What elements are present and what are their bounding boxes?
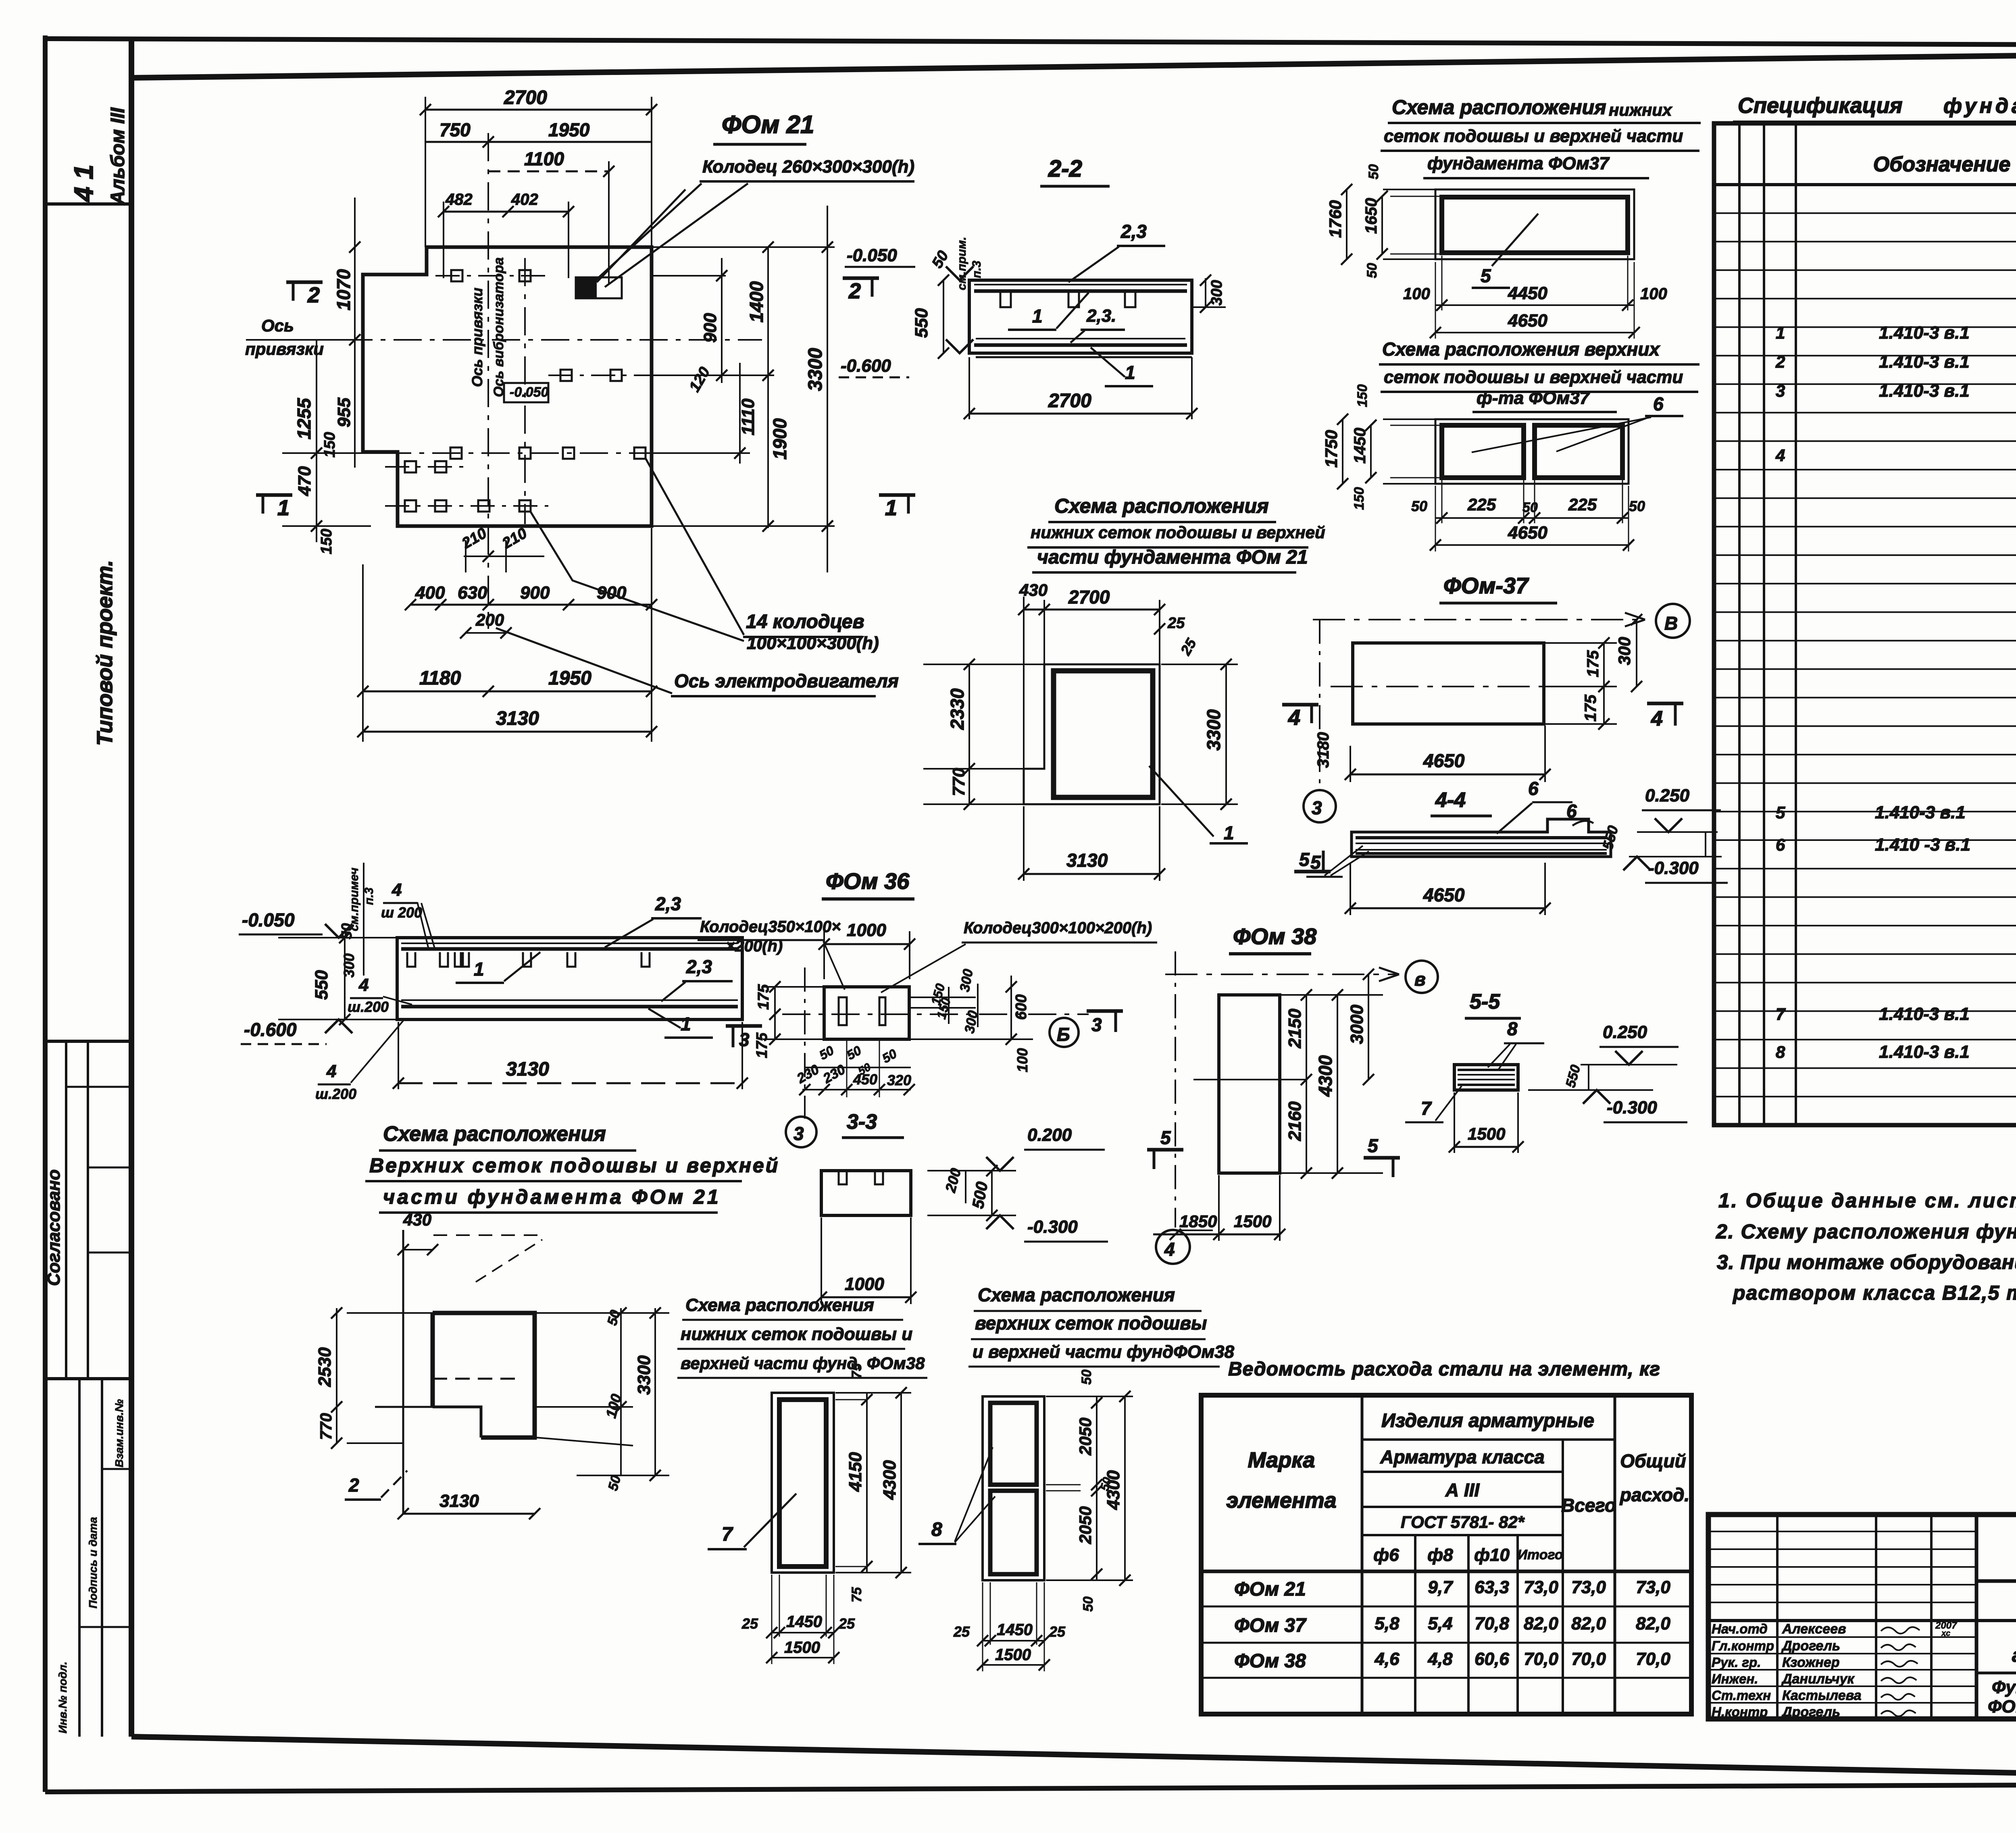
svg-text:25: 25: [1167, 615, 1185, 632]
svg-text:2330: 2330: [947, 688, 968, 730]
svg-text:ф10: ф10: [1474, 1545, 1510, 1565]
svg-text:4-4: 4-4: [1435, 789, 1466, 812]
section mark 5 lower: [1294, 870, 1331, 874]
svg-text:175: 175: [754, 1032, 771, 1058]
dims right FOm36: [911, 997, 976, 998]
section mark 1 left: [256, 493, 292, 497]
svg-text:Ось привязки: Ось привязки: [469, 288, 485, 387]
bottom dim 3130: [363, 731, 652, 733]
left dim chain: [354, 198, 356, 468]
dim 3130 bottom scheme: [403, 1513, 535, 1515]
svg-text:4: 4: [1164, 1239, 1175, 1260]
svg-text:1900: 1900: [769, 418, 790, 460]
svg-text:1070: 1070: [333, 269, 354, 310]
svg-text:5: 5: [1299, 849, 1310, 870]
svg-text:3: 3: [1312, 797, 1322, 818]
circle mark V: [1656, 604, 1690, 638]
svg-text:ФОм 36,ФОм 37, ФОм 38: ФОм 36,ФОм 37, ФОм 38: [1988, 1697, 2016, 1716]
FOm38 center line: [1193, 1079, 1306, 1080]
svg-text:3300: 3300: [634, 1355, 654, 1395]
svg-text:6: 6: [1528, 778, 1539, 799]
svg-text:5,8: 5,8: [1375, 1614, 1400, 1633]
svg-text:Кастылева: Кастылева: [1782, 1688, 1862, 1703]
svg-text:63,3: 63,3: [1475, 1577, 1509, 1597]
element 7 outer: [772, 1393, 834, 1573]
scheme2 bottom dims: [1435, 517, 1629, 519]
svg-text:1: 1: [1125, 362, 1135, 383]
svg-text:5: 5: [1160, 1127, 1171, 1148]
dim 3300 100 50 50: [620, 1308, 622, 1475]
svg-text:Колодец350×100×: Колодец350×100×: [700, 918, 841, 936]
top band notches: [1000, 291, 1011, 307]
svg-text:Итого: Итого: [1517, 1547, 1563, 1563]
svg-text:-0.600: -0.600: [244, 1019, 297, 1040]
element 7 dims bottom: [772, 1632, 834, 1633]
svg-text:1100: 1100: [524, 148, 564, 169]
svg-text:Дрогель: Дрогель: [1781, 1638, 1840, 1654]
svg-text:4: 4: [1288, 705, 1300, 730]
dim 2700 top: [425, 109, 652, 111]
kolodets filled square: [576, 277, 597, 298]
section mark 5 top: [1364, 1156, 1400, 1160]
svg-text:75: 75: [849, 1363, 864, 1379]
svg-text:Обозначение: Обозначение: [1873, 153, 2011, 176]
svg-text:100×100×300(h): 100×100×300(h): [747, 633, 879, 653]
svg-text:2: 2: [348, 1475, 359, 1496]
element 8 mesh bottom: [990, 1491, 1037, 1574]
svg-text:70,0: 70,0: [1524, 1649, 1558, 1669]
svg-text:1.410-3 в.1: 1.410-3 в.1: [1879, 1042, 1970, 1062]
mesh 6a bold rect: [1442, 425, 1524, 478]
FOm38 axis horizontal: [1165, 974, 1399, 975]
dim 430 2700 scheme: [1024, 609, 1160, 611]
svg-text:6: 6: [1776, 835, 1785, 854]
drawing frame top: [131, 50, 2016, 78]
FOm38 axis vertical: [1175, 951, 1176, 1228]
svg-text:1. Общие данные см. лист 1.: 1. Общие данные см. лист 1.: [1718, 1189, 2016, 1212]
bottom dim 210 210: [464, 556, 544, 557]
mesh lines 4-4 top: [1356, 836, 1607, 839]
upper mesh dashed top: [433, 1234, 540, 1236]
dim 1000 33: [821, 1296, 911, 1298]
svg-text:150: 150: [318, 529, 335, 554]
svg-text:14 колодцев: 14 колодцев: [746, 611, 864, 632]
svg-text:элемента: элемента: [1226, 1488, 1336, 1513]
svg-text:73,0: 73,0: [1571, 1577, 1606, 1597]
svg-text:1500: 1500: [784, 1639, 820, 1656]
svg-text:автомобильных шин.: автомобильных шин.: [2012, 1645, 2016, 1666]
svg-text:Б: Б: [1057, 1024, 1070, 1045]
steel table frame: [1201, 1395, 1691, 1714]
dim 1100: [488, 171, 609, 173]
bottom mesh band: [976, 338, 1185, 339]
svg-text:Изделия арматурные: Изделия арматурные: [1381, 1410, 1594, 1431]
svg-text:5: 5: [1310, 852, 1321, 873]
svg-text:5: 5: [1776, 803, 1785, 822]
svg-text:-0.300: -0.300: [1648, 858, 1699, 878]
svg-text:400: 400: [415, 583, 445, 603]
element 8 dims right: [1046, 1396, 1133, 1397]
svg-text:1000: 1000: [847, 920, 886, 940]
svg-text:ф8: ф8: [1427, 1545, 1453, 1565]
svg-text:175: 175: [1582, 695, 1599, 722]
svg-text:1: 1: [681, 1013, 691, 1034]
svg-text:50: 50: [1629, 498, 1645, 514]
section mark 1 right: [879, 493, 915, 497]
page border outer left: [43, 35, 48, 1792]
svg-text:73,0: 73,0: [1636, 1577, 1670, 1597]
svg-text:4,6: 4,6: [1374, 1649, 1400, 1669]
svg-text:1110: 1110: [738, 398, 758, 435]
svg-text:1180: 1180: [419, 668, 461, 689]
svg-text:1500: 1500: [1468, 1124, 1505, 1143]
svg-text:нижних сеток подошвы и: нижних сеток подошвы и: [681, 1324, 912, 1344]
axis line FOm37: [1313, 619, 1645, 620]
svg-text:Общий: Общий: [1620, 1450, 1686, 1471]
svg-text:Инжен.: Инжен.: [1712, 1671, 1758, 1686]
leader diagonal to kolodets label: [597, 189, 685, 282]
dim 1500 55: [1454, 1146, 1518, 1148]
svg-text:Ведомость расхода стали на эле: Ведомость расхода стали на элемент, кг: [1228, 1359, 1660, 1380]
axis short y1255: [385, 505, 548, 507]
mesh lines 4-4 bottom: [1356, 849, 1607, 851]
svg-text:-0.050: -0.050: [510, 385, 548, 400]
svg-text:25: 25: [838, 1615, 855, 1632]
svg-text:части фундамента ФОм 21: части фундамента ФОм 21: [383, 1186, 721, 1208]
svg-text:1: 1: [1032, 306, 1043, 327]
svg-text:482: 482: [445, 191, 473, 208]
svg-text:3300: 3300: [1203, 709, 1224, 751]
axis short y1158: [385, 466, 464, 468]
svg-text:3130: 3130: [439, 1491, 479, 1511]
element 7 dims right: [835, 1392, 911, 1394]
dim 300 right sec2: [1205, 278, 1206, 307]
dim 200 33: [965, 1171, 966, 1203]
svg-text:0.200: 0.200: [1027, 1125, 1072, 1145]
dim 2700 sec2: [969, 413, 1192, 415]
svg-text:2: 2: [1775, 352, 1785, 371]
mesh 6b bold rect: [1535, 425, 1622, 478]
dim 430 bottom scheme: [403, 1249, 433, 1250]
upper mesh bold outline: [433, 1313, 535, 1438]
svg-text:Схема расположения: Схема расположения: [383, 1122, 606, 1146]
FOm37 axis horizontal: [1331, 686, 1581, 687]
svg-text:Нач.отд: Нач.отд: [1712, 1621, 1768, 1636]
steel table verticals: [1361, 1395, 1364, 1714]
svg-text:ш.200: ш.200: [315, 1086, 356, 1102]
svg-text:225: 225: [1467, 495, 1496, 514]
stamp side table: [78, 1379, 81, 1737]
spec row lines: [1714, 212, 2016, 214]
page border outer top: [45, 39, 2016, 46]
FOm36 plan rect: [824, 987, 909, 1039]
long section dim 3130: [398, 1082, 742, 1084]
svg-text:150: 150: [1352, 487, 1367, 510]
svg-text:1: 1: [474, 959, 484, 980]
dim 750 1950: [425, 141, 652, 143]
svg-text:3180: 3180: [1314, 732, 1332, 768]
svg-text:1255: 1255: [294, 397, 314, 439]
leaders to wells: [645, 458, 744, 635]
top mesh band: [974, 284, 1187, 285]
svg-text:73,0: 73,0: [1524, 1577, 1558, 1597]
svg-text:Н.контр: Н.контр: [1712, 1704, 1768, 1719]
section 2-2 body: [969, 280, 1192, 353]
svg-text:5,4: 5,4: [1428, 1614, 1452, 1633]
svg-text:ГОСТ 5781- 82*: ГОСТ 5781- 82*: [1401, 1513, 1525, 1531]
svg-text:25: 25: [1049, 1623, 1066, 1640]
svg-text:630: 630: [458, 583, 487, 603]
svg-text:402: 402: [511, 191, 538, 208]
dim 1000 FOm36: [824, 943, 910, 945]
svg-text:1.410-3 в.1: 1.410-3 в.1: [1875, 803, 1966, 822]
svg-text:сеток подошвы и верхней части: сеток подошвы и верхней части: [1384, 367, 1683, 387]
svg-text:Кзожнер: Кзожнер: [1782, 1655, 1840, 1670]
leader 5 scheme1: [1492, 214, 1538, 266]
svg-text:2050: 2050: [1076, 1418, 1095, 1456]
dims 175 175 right: [1545, 642, 1617, 644]
svg-text:ф-та ФОм37: ф-та ФОм37: [1477, 388, 1591, 408]
svg-text:50: 50: [1411, 498, 1427, 514]
svg-text:8: 8: [1507, 1018, 1518, 1039]
svg-text:Всего: Всего: [1561, 1495, 1616, 1516]
svg-text:4: 4: [392, 880, 402, 900]
svg-text:2700: 2700: [504, 87, 547, 108]
dim 2530 770: [336, 1308, 337, 1443]
svg-text:3000: 3000: [1347, 1005, 1367, 1044]
svg-text:1400: 1400: [746, 281, 767, 322]
drawing frame left: [129, 39, 134, 1737]
svg-text:1.410-3 в.1: 1.410-3 в.1: [1879, 381, 1970, 401]
svg-text:3130: 3130: [1066, 850, 1108, 871]
axis vertical main: [487, 133, 489, 629]
drawing frame bottom: [131, 1737, 2016, 1782]
scheme1 left dims: [1383, 189, 1435, 190]
svg-text:3-3: 3-3: [847, 1110, 877, 1134]
svg-text:Ось: Ось: [261, 316, 294, 335]
svg-text:ФОм-37: ФОм-37: [1443, 573, 1529, 598]
svg-text:верхних сеток подошвы: верхних сеток подошвы: [975, 1313, 1207, 1334]
svg-text:600: 600: [1013, 995, 1030, 1020]
title block signature columns: [1776, 1515, 1779, 1719]
svg-text:2050: 2050: [1076, 1506, 1095, 1544]
dims 2150 2160 4300 3000: [1281, 994, 1383, 996]
svg-text:50: 50: [1079, 1369, 1094, 1385]
spec table verticals: [1738, 123, 1741, 1125]
svg-text:1750: 1750: [1322, 430, 1341, 468]
svg-text:расход.: расход.: [1619, 1484, 1689, 1505]
svg-text:части фундамента ФОм 21: части фундамента ФОм 21: [1037, 547, 1308, 568]
svg-text:1.410-3 в.1: 1.410-3 в.1: [1879, 1004, 1970, 1024]
dim 500 33: [991, 1171, 993, 1215]
svg-text:-0.050: -0.050: [847, 246, 897, 265]
svg-text:200: 200: [475, 610, 504, 629]
dim 3130 scheme: [1024, 873, 1160, 875]
dim 482 402: [444, 211, 569, 213]
svg-text:Алексеев: Алексеев: [1782, 1621, 1846, 1637]
svg-text:4 1: 4 1: [69, 164, 98, 202]
svg-text:300: 300: [1208, 280, 1225, 306]
svg-text:фундаментов ФОм 21, ФОм 36 ÷: фундаментов ФОм 21, ФОм 36 ÷ ФОм 38.: [1943, 94, 2016, 118]
svg-text:ФОм 21: ФОм 21: [722, 111, 814, 139]
FOm36 axis vertical: [804, 967, 806, 1119]
svg-text:5: 5: [1481, 265, 1491, 286]
svg-text:2,3: 2,3: [655, 893, 681, 914]
svg-text:ш.200: ш.200: [348, 999, 389, 1015]
svg-text:4300: 4300: [880, 1460, 900, 1500]
svg-text:225: 225: [1568, 495, 1597, 514]
bottom dim 400 630 900 900: [410, 604, 652, 606]
svg-text:1.410-3 в.1: 1.410-3 в.1: [1879, 352, 1970, 372]
element 7 mesh: [779, 1400, 826, 1567]
svg-text:70,8: 70,8: [1475, 1614, 1509, 1633]
svg-text:нижних: нижних: [1609, 100, 1672, 119]
right dim chain: [653, 246, 835, 248]
svg-text:175: 175: [755, 984, 772, 1010]
svg-text:А III: А III: [1445, 1479, 1480, 1500]
svg-text:1450: 1450: [997, 1621, 1033, 1639]
circle mark 4: [1156, 1230, 1190, 1264]
svg-text:фундамента ФОм37: фундамента ФОм37: [1427, 154, 1610, 173]
svg-text:6: 6: [1653, 393, 1664, 414]
svg-text:320: 320: [887, 1072, 911, 1088]
svg-text:Ось вибронизатора: Ось вибронизатора: [491, 257, 506, 397]
svg-text:Колодец 260×300×300(h): Колодец 260×300×300(h): [702, 157, 914, 177]
approval table: [45, 1040, 131, 1043]
svg-text:430: 430: [1019, 580, 1048, 599]
svg-text:4650: 4650: [1423, 884, 1465, 905]
upper mesh scheme vertical axis: [402, 1230, 404, 1514]
FOm36 slot 1: [839, 997, 847, 1025]
svg-text:ф6: ф6: [1373, 1545, 1399, 1565]
svg-text:см.прим.: см.прим.: [955, 237, 968, 290]
svg-text:550: 550: [312, 970, 331, 1000]
svg-text:п.3: п.3: [362, 887, 376, 905]
svg-text:Взам.инв.№: Взам.инв.№: [113, 1399, 125, 1467]
dim 550 44: [1705, 832, 1706, 857]
circle mark B: [1050, 1018, 1079, 1047]
svg-text:Спецификация: Спецификация: [1738, 94, 1902, 118]
mesh 5 bold rect: [1442, 197, 1628, 253]
svg-text:Ст.техн: Ст.техн: [1712, 1688, 1771, 1703]
long section bottom mesh band: [401, 999, 738, 1001]
steel table row lines: [1201, 1606, 1691, 1608]
svg-text:-0.300: -0.300: [1607, 1098, 1657, 1117]
section 3-3 body: [821, 1171, 911, 1215]
svg-text:ФОм 36: ФОм 36: [826, 868, 910, 894]
svg-text:раствором класса В12,5 толщ: раствором класса В12,5 толщ. 50 мм.: [1732, 1282, 2016, 1304]
bottom dims FOm38: [1153, 1234, 1280, 1236]
spec header row line: [1714, 183, 2016, 186]
svg-text:1850: 1850: [1179, 1212, 1217, 1231]
axis short y931: [548, 375, 766, 376]
svg-text:7: 7: [1776, 1005, 1786, 1024]
dims 175 175 FOm36 left: [774, 987, 776, 1039]
svg-text:Схема расположения: Схема расположения: [685, 1295, 874, 1315]
svg-text:Дрогель: Дрогель: [1781, 1704, 1840, 1720]
svg-text:50: 50: [1364, 263, 1380, 278]
svg-text:2: 2: [307, 283, 320, 307]
svg-text:в: в: [1414, 969, 1426, 990]
svg-text:25: 25: [953, 1623, 970, 1640]
svg-text:4650: 4650: [1508, 311, 1547, 331]
svg-text:3300: 3300: [805, 348, 826, 391]
svg-text:Схема расположения: Схема расположения: [978, 1284, 1175, 1305]
svg-text:5: 5: [1368, 1135, 1379, 1156]
bottom dim 1180 1950: [363, 691, 652, 693]
svg-text:1: 1: [1776, 323, 1785, 342]
svg-text:770: 770: [949, 768, 968, 796]
svg-text:Подпись и дата: Подпись и дата: [87, 1517, 99, 1608]
svg-text:60,6: 60,6: [1475, 1649, 1509, 1669]
svg-text:Колодец300×100×200(h): Колодец300×100×200(h): [964, 919, 1152, 937]
svg-text:2700: 2700: [1068, 587, 1110, 608]
mesh scheme 1 outline: [1435, 189, 1634, 259]
upper mesh inner dashed: [433, 1378, 521, 1380]
mesh scheme 2 outline: [1435, 419, 1629, 484]
svg-text:2530: 2530: [315, 1347, 335, 1387]
axis line wells row: [383, 452, 677, 454]
section mark 4: [1647, 702, 1683, 705]
svg-text:Инв.№ подл.: Инв.№ подл.: [56, 1662, 69, 1733]
section mark 3 left FOm36: [726, 1024, 762, 1028]
scheme1 bottom dims: [1435, 304, 1634, 306]
svg-text:4: 4: [1651, 707, 1663, 730]
svg-text:100: 100: [1014, 1048, 1031, 1072]
svg-text:4: 4: [1775, 446, 1785, 465]
svg-text:900: 900: [597, 583, 627, 603]
svg-text:300: 300: [1615, 637, 1634, 665]
svg-text:900: 900: [700, 313, 720, 343]
svg-text:4450: 4450: [1508, 283, 1547, 303]
svg-text:-0.600: -0.600: [841, 356, 891, 376]
svg-text:82,0: 82,0: [1524, 1614, 1558, 1633]
bottom dims FOm36: [805, 1067, 911, 1068]
element 8 mesh top: [990, 1403, 1037, 1485]
album box divider: [45, 202, 131, 206]
svg-text:Схема расположения: Схема расположения: [1392, 96, 1606, 119]
svg-text:Гл.контр: Гл.контр: [1712, 1638, 1774, 1653]
FOm38 plan rect: [1219, 995, 1280, 1173]
svg-text:Согласовано: Согласовано: [44, 1169, 64, 1286]
svg-text:175: 175: [1584, 650, 1602, 677]
svg-text:3. При монтаже оборудования: 3. При монтаже оборудования выполнить по…: [1717, 1251, 2016, 1273]
svg-text:3: 3: [1776, 381, 1785, 400]
svg-text:4: 4: [358, 975, 369, 995]
svg-text:Альбом III: Альбом III: [107, 107, 129, 205]
section 5-5 body: [1454, 1065, 1518, 1090]
svg-text:900: 900: [520, 583, 550, 603]
svg-text:верхней части фунд. ФОм38: верхней части фунд. ФОм38: [681, 1354, 925, 1373]
svg-text:Данильчук: Данильчук: [1781, 1671, 1855, 1687]
svg-text:4650: 4650: [1508, 523, 1547, 543]
dim 550 sec2: [943, 280, 944, 353]
svg-text:ФОм 37: ФОм 37: [1234, 1615, 1307, 1636]
svg-text:Рук. гр.: Рук. гр.: [1712, 1655, 1761, 1670]
spec table frame: [1714, 123, 2016, 1125]
steel table header lines: [1362, 1438, 1615, 1441]
svg-text:Схема расположения: Схема расположения: [1054, 495, 1269, 517]
axis vertical 2: [524, 258, 526, 524]
svg-text:300: 300: [341, 953, 357, 978]
doc number cell divider: [1976, 1579, 2016, 1583]
svg-text:150: 150: [1355, 384, 1370, 407]
circle mark v: [1406, 961, 1438, 993]
svg-text:550: 550: [912, 308, 931, 338]
FOm36 slot 2: [879, 997, 885, 1025]
svg-text:1950: 1950: [548, 119, 590, 140]
svg-text:4650: 4650: [1423, 750, 1465, 771]
